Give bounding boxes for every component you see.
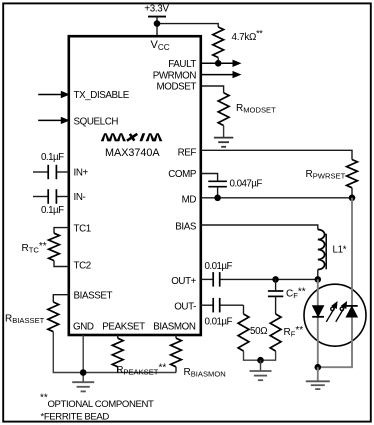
- wire TC1: [54, 228, 69, 234]
- resistor 50Ω: [238, 314, 249, 351]
- svg-text:OPTIONAL COMPONENT: OPTIONAL COMPONENT: [48, 399, 155, 410]
- svg-text:RPWRSET: RPWRSET: [306, 169, 346, 181]
- wire RPEAKSET to bus: [117, 367, 119, 373]
- node laser ground junction: [315, 364, 322, 371]
- wire 50ohm to ground: [244, 351, 261, 360]
- ground laser: [306, 381, 330, 389]
- input arrow SQUELCH: [38, 117, 70, 124]
- capacitor 0.1µF (IN-): [33, 189, 69, 204]
- wire R1 to FAULT: [217, 58, 219, 64]
- inductor L1: [318, 230, 326, 270]
- wire ground bus: [83, 372, 176, 374]
- resistor RMODSET: [218, 93, 229, 126]
- wire REF: [201, 150, 352, 159]
- svg-text:BIAS: BIAS: [175, 222, 197, 233]
- laser package circle: [304, 284, 366, 346]
- svg-text:RBIASMON: RBIASMON: [184, 367, 226, 379]
- capacitor 0.01µF (OUT+): [201, 272, 318, 287]
- input arrow TX_DISABLE: [38, 91, 70, 98]
- node ground bus junction: [80, 369, 87, 376]
- svg-text:RBIASSET: RBIASSET: [5, 314, 45, 326]
- wire PWRMON output arrow: [201, 71, 242, 78]
- wire OUT- to 50ohm: [243, 305, 245, 314]
- svg-text:0.047µF: 0.047µF: [230, 178, 263, 189]
- svg-text:REF: REF: [178, 148, 197, 159]
- svg-text:0.1µF: 0.1µF: [41, 152, 64, 163]
- svg-text:L1*: L1*: [333, 245, 347, 256]
- wire RBIASSET to bus: [53, 332, 83, 373]
- wire termination ground stem: [260, 360, 262, 371]
- svg-text:MD: MD: [182, 195, 197, 206]
- wire laser ground stem: [317, 367, 319, 381]
- wire CF stem: [275, 279, 277, 291]
- pin labels right: [153, 59, 197, 312]
- node VCC junction: [154, 20, 161, 27]
- diode monitor photodiode: [346, 306, 358, 317]
- svg-text:GND: GND: [73, 322, 94, 333]
- svg-text:COMP: COMP: [168, 169, 197, 180]
- svg-text:FAULT: FAULT: [168, 59, 196, 70]
- wire main ground stem: [82, 373, 84, 383]
- svg-text:TC2: TC2: [74, 261, 91, 272]
- diode laser LD: [312, 306, 324, 317]
- svg-text:PWRMON: PWRMON: [153, 70, 197, 81]
- pin labels bottom: [73, 322, 196, 333]
- pin labels left: [74, 90, 130, 301]
- resistor RTC: [49, 233, 60, 260]
- wire COMP: [201, 174, 218, 182]
- svg-text:MODSET: MODSET: [156, 82, 196, 93]
- capacitor 0.1µF (IN+): [33, 165, 69, 179]
- ground main: [72, 382, 94, 391]
- wire BIASMON stem: [175, 335, 177, 338]
- light emission arrows: [326, 301, 347, 322]
- node L1 laser junction: [315, 276, 322, 283]
- wire L1 to OUT+: [317, 270, 319, 280]
- node CF junction: [272, 276, 279, 283]
- svg-text:BIASSET: BIASSET: [74, 290, 113, 301]
- svg-text:IN-: IN-: [74, 192, 86, 203]
- resistor RPWRSET: [347, 160, 358, 188]
- wire VCC to R1 4.7k: [157, 24, 218, 27]
- wire MD to photodiode: [351, 198, 353, 288]
- node termination ground junction: [257, 357, 264, 364]
- node FAULT junction: [215, 60, 222, 67]
- svg-text:RMODSET: RMODSET: [236, 103, 276, 115]
- ground RMODSET: [214, 138, 233, 147]
- svg-text:IN+: IN+: [74, 168, 89, 179]
- resistor RBIASMON: [171, 338, 182, 367]
- op IC U1 MAX3740A: [69, 36, 201, 335]
- wire +3.3V stem: [156, 17, 158, 37]
- wire RMODSET to ground: [223, 126, 225, 138]
- svg-text:TC1: TC1: [74, 223, 91, 234]
- svg-text:MAX3740A: MAX3740A: [105, 147, 160, 159]
- capacitor CF: [268, 291, 283, 296]
- wire photodiode return: [318, 288, 352, 367]
- wire GND pin stem: [82, 335, 84, 373]
- wire RPWRSET to MD: [351, 188, 353, 198]
- wire RF to ground: [261, 351, 276, 360]
- svg-text:TX_DISABLE: TX_DISABLE: [74, 90, 130, 101]
- resistor RPEAKSET: [112, 338, 123, 367]
- svg-text:0.01µF: 0.01µF: [205, 316, 233, 327]
- ground termination: [250, 371, 272, 380]
- wire FAULT output arrow: [201, 60, 242, 67]
- svg-text:BIASMON: BIASMON: [153, 322, 196, 333]
- svg-text:+3.3V: +3.3V: [144, 4, 169, 15]
- wire RBIASMON to bus: [175, 367, 177, 373]
- resistor RF: [270, 314, 281, 351]
- svg-text:*FERRITE BEAD: *FERRITE BEAD: [41, 412, 110, 423]
- svg-text:OUT+: OUT+: [171, 276, 196, 287]
- logo MAXIM: [101, 133, 163, 141]
- wire cap to MD: [217, 187, 219, 198]
- wire MODSET: [201, 86, 224, 93]
- wire TC2: [54, 261, 69, 267]
- svg-text:SQUELCH: SQUELCH: [74, 116, 119, 127]
- node MD cap junction: [214, 195, 221, 202]
- wire PEAKSET stem: [117, 335, 119, 338]
- svg-text:0.1µF: 0.1µF: [41, 205, 64, 216]
- capacitor 0.047µF: [208, 181, 227, 186]
- svg-text:50Ω: 50Ω: [250, 326, 267, 337]
- svg-text:0.01µF: 0.01µF: [205, 261, 233, 272]
- wire CF to RF: [275, 296, 277, 314]
- wire MD: [201, 197, 352, 199]
- resistor R1 4.7kΩ: [213, 27, 224, 58]
- svg-text:OUT-: OUT-: [174, 301, 196, 312]
- wire BIAS: [201, 225, 318, 230]
- wire laser cathode feed: [317, 279, 319, 367]
- wire BIASSET: [53, 295, 69, 302]
- svg-text:PEAKSET: PEAKSET: [102, 322, 145, 333]
- resistor RBIASSET: [48, 302, 59, 332]
- node MD RPWRSET junction: [349, 195, 356, 202]
- capacitor 0.01µF (OUT-): [201, 298, 244, 313]
